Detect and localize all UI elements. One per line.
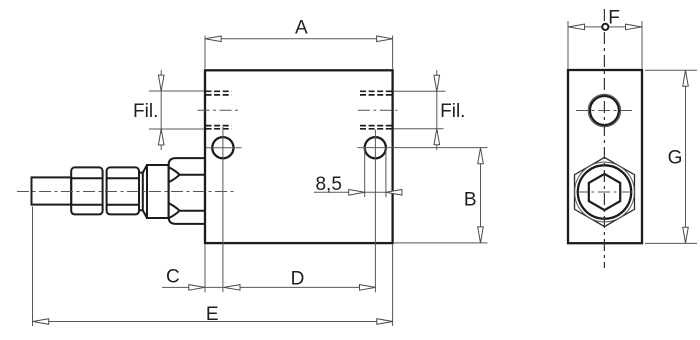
cartridge hex outer xyxy=(575,157,635,226)
bushing cylinder xyxy=(147,165,169,218)
hex horizontal centerline xyxy=(576,191,633,193)
body edge / rod extension lines for C D E xyxy=(33,207,393,327)
dimension B line xyxy=(480,148,482,243)
dimension 8,5 line xyxy=(314,191,402,193)
cartridge hex chamfer arcs xyxy=(169,167,180,218)
dimension G extension lines xyxy=(645,70,697,243)
side view top port circle xyxy=(590,96,619,125)
dimension G line xyxy=(685,70,687,243)
svg-text:8,5: 8,5 xyxy=(315,174,341,195)
right gauge hole circle xyxy=(365,137,386,158)
right port centerline xyxy=(358,109,398,111)
dimension C/D line xyxy=(162,286,376,288)
dimension B extension line bottom xyxy=(394,242,487,244)
left threaded port dashed thread lines xyxy=(206,91,232,129)
Fil. right extension lines xyxy=(394,91,446,128)
lock nut 1 xyxy=(71,167,102,214)
side view top port chamfer circle xyxy=(588,94,621,127)
hole diameter tangent extensions xyxy=(365,148,386,197)
svg-text:F: F xyxy=(608,8,620,29)
left gauge hole circle xyxy=(212,137,233,158)
svg-text:D: D xyxy=(291,269,305,290)
cartridge chamfer thick circle xyxy=(578,165,631,218)
left hole vertical centerline / extension xyxy=(222,127,224,292)
svg-text:G: G xyxy=(668,148,683,169)
cartridge hex inscribed thin circle xyxy=(575,162,635,222)
svg-text:Fil.: Fil. xyxy=(440,101,465,122)
side view vertical centerline xyxy=(603,9,605,268)
valve body (front view) xyxy=(205,70,393,243)
hex socket xyxy=(589,174,620,210)
dimension E line xyxy=(33,321,393,323)
Fil. left extension lines xyxy=(149,91,204,129)
dimension F line xyxy=(568,26,642,28)
top port horizontal centerline xyxy=(576,110,632,112)
dimension A extension lines xyxy=(205,36,393,69)
lock nut 2 xyxy=(107,167,139,214)
left hole horizontal centerline xyxy=(206,147,242,149)
svg-text:C: C xyxy=(166,267,180,288)
side view body xyxy=(568,70,642,243)
svg-text:Fil.: Fil. xyxy=(133,101,158,122)
right hole horizontal centerline / B extension xyxy=(358,147,488,149)
taper to bushing xyxy=(143,165,147,218)
lock nut 1 facet lines xyxy=(71,178,102,205)
cartridge hex xyxy=(169,158,206,224)
svg-text:A: A xyxy=(295,18,308,39)
svg-text:B: B xyxy=(464,190,477,211)
right hole vertical centerline / extension xyxy=(374,130,376,293)
right threaded port dashed thread lines xyxy=(360,91,393,129)
Fil. right dimension line xyxy=(436,70,438,150)
left port centerline xyxy=(198,109,240,111)
cartridge hex facet lines xyxy=(180,175,206,211)
Fil. left dimension line xyxy=(160,70,162,150)
dimension A line xyxy=(205,38,393,40)
dimension F extension lines xyxy=(568,21,642,69)
screw axis centerline xyxy=(17,191,234,193)
svg-text:E: E xyxy=(206,304,219,325)
neck between nut and bushing xyxy=(139,173,143,211)
adjustment screw rod xyxy=(32,177,72,204)
lock nut 2 facet lines xyxy=(107,178,139,205)
F hole ring xyxy=(602,24,608,30)
